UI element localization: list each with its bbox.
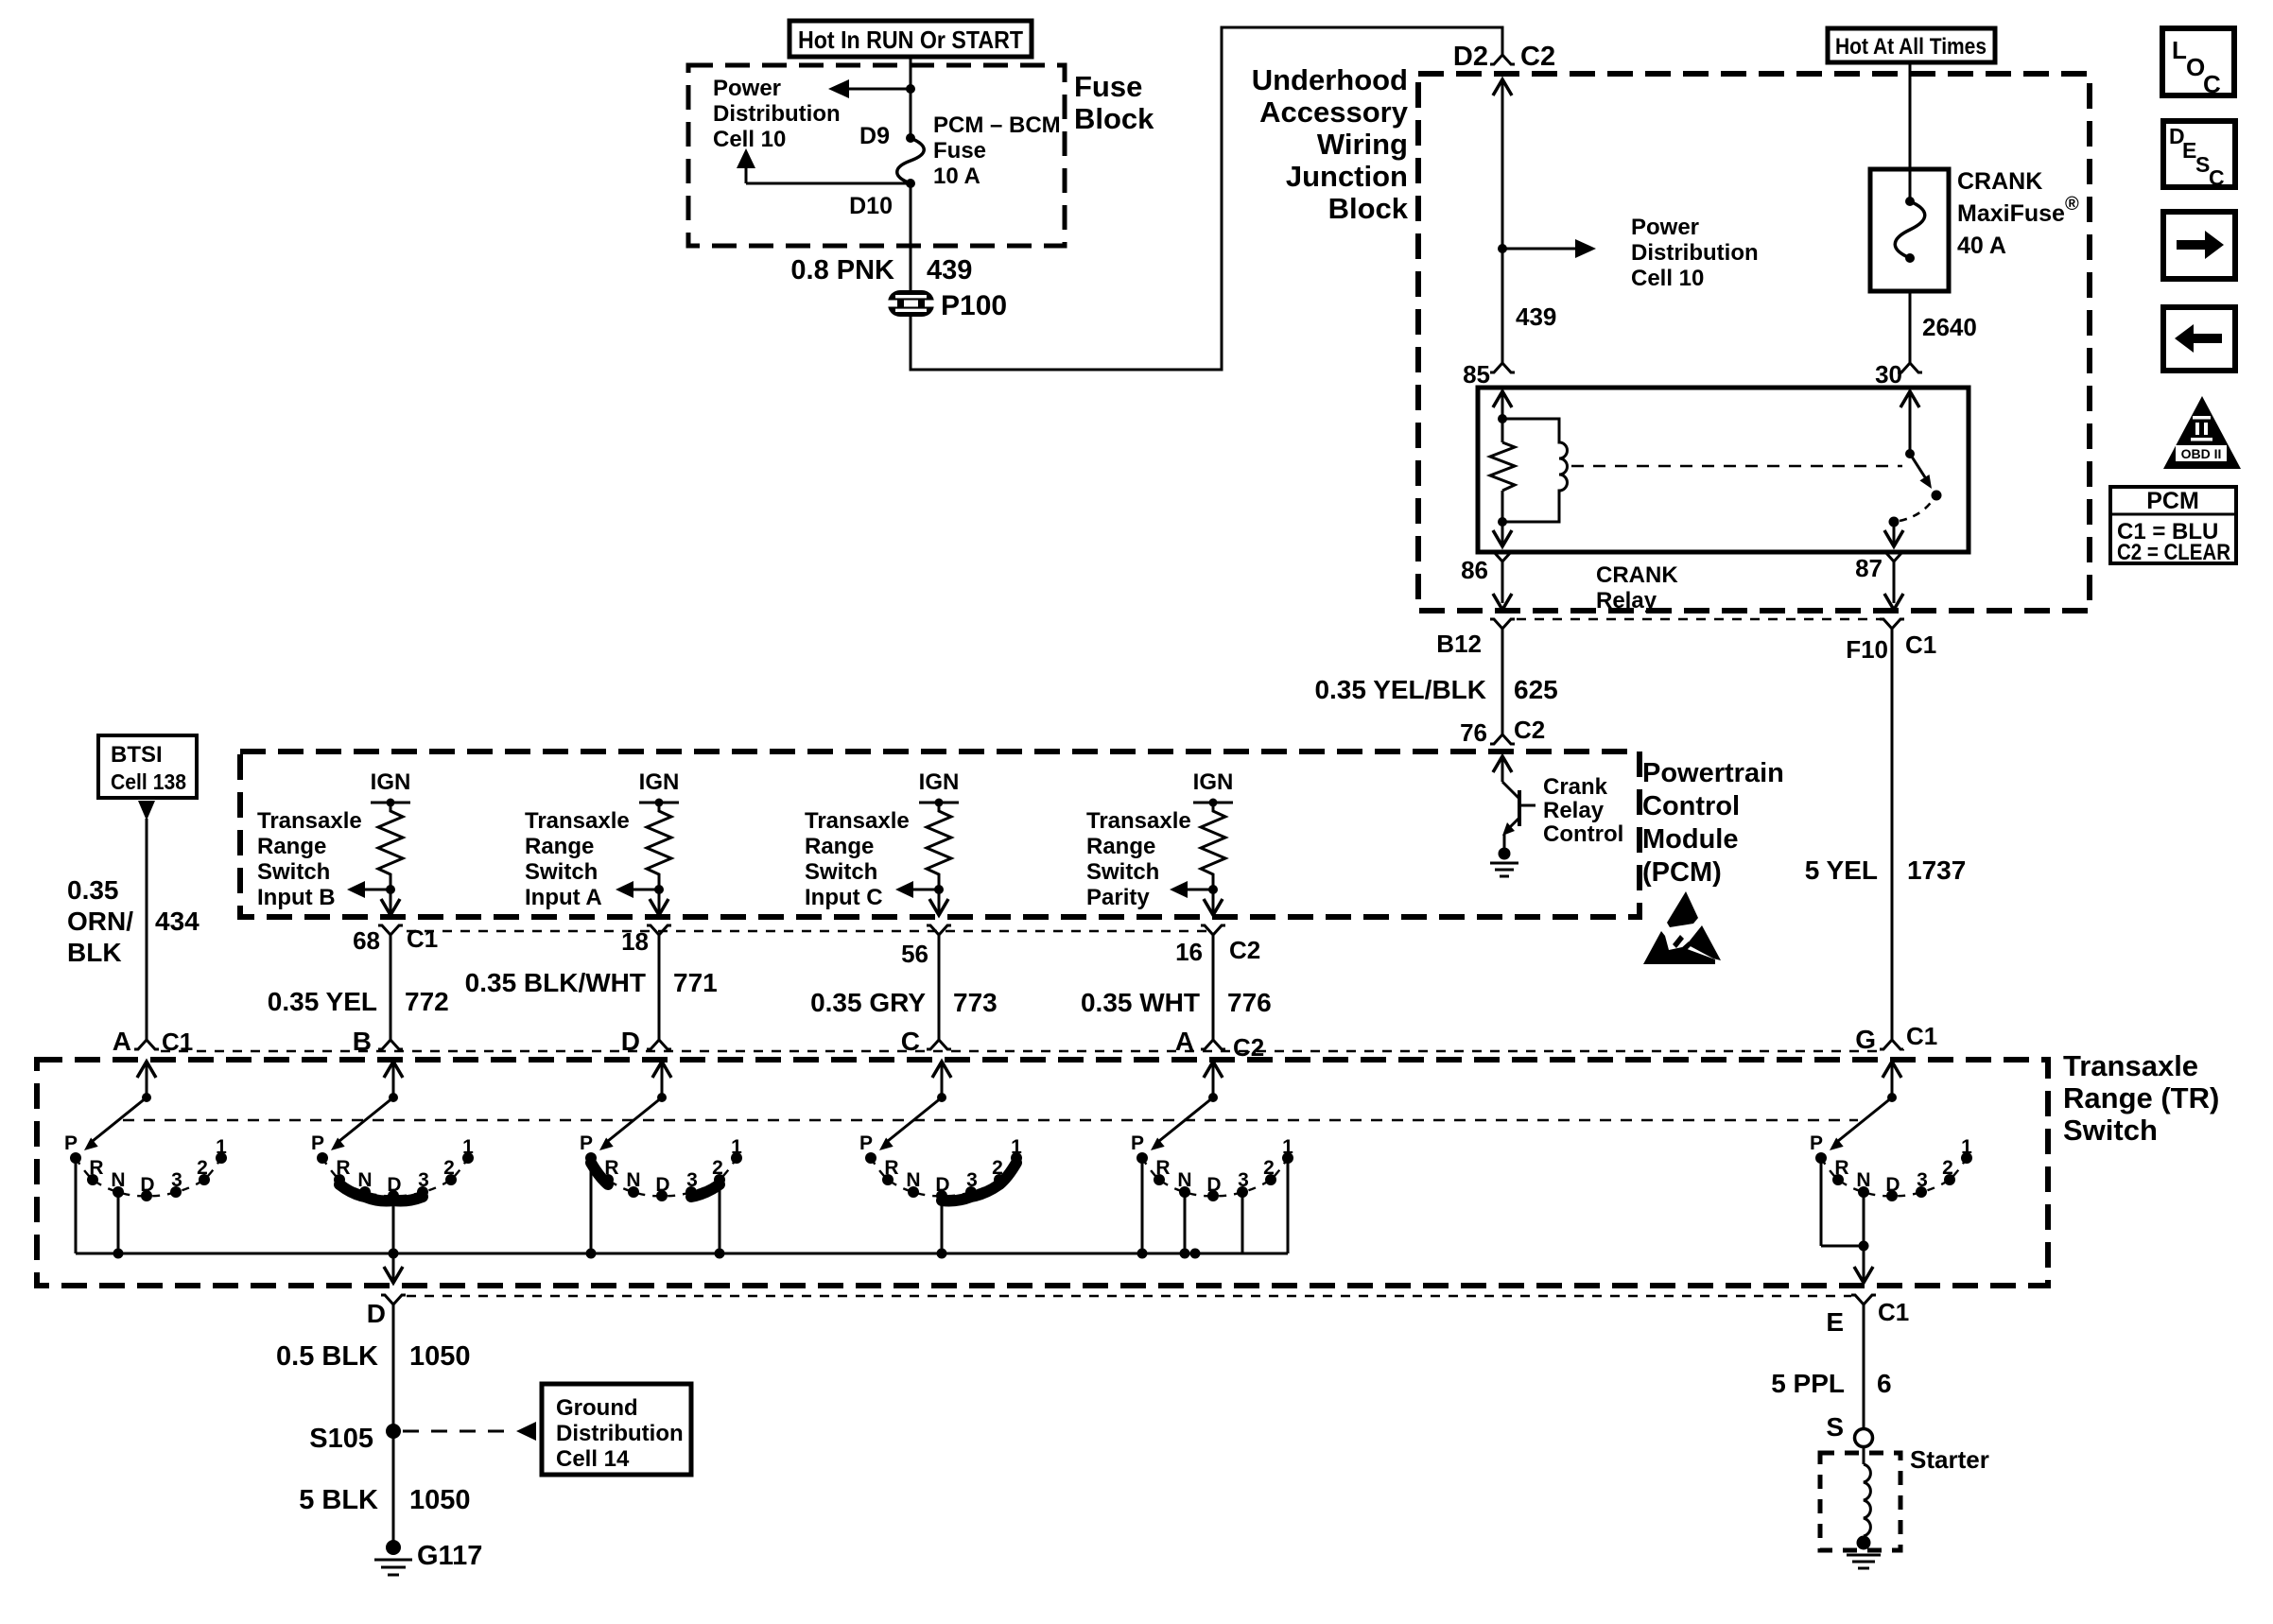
svg-text:0.8 PNK: 0.8 PNK — [790, 255, 894, 285]
svg-text:0.35 WHT: 0.35 WHT — [1081, 988, 1200, 1017]
svg-text:3: 3 — [1917, 1169, 1928, 1191]
TR switch wafer C: bus junction — [937, 1249, 947, 1259]
svg-text:Switch: Switch — [1086, 859, 1159, 885]
TR switch wafer A2: contact wire — [1241, 1192, 1244, 1253]
svg-text:2640: 2640 — [1922, 313, 1977, 341]
label Transaxle Range Switch Parity — [1086, 808, 1191, 910]
PCM IGN pull-up supply for Parity — [1193, 769, 1234, 807]
ground distribution cell 14 label box — [542, 1384, 691, 1475]
node: 439 branch to power distribution — [1498, 244, 1507, 253]
svg-text:A: A — [113, 1027, 131, 1056]
svg-text:C1: C1 — [407, 924, 438, 953]
svg-text:Transaxle: Transaxle — [2063, 1049, 2198, 1082]
svg-text:Power: Power — [1631, 215, 1699, 240]
svg-text:0.35: 0.35 — [67, 875, 119, 905]
ESD sensitive symbol — [1643, 891, 1721, 964]
TR switch wafer D: contact 2 — [712, 1157, 725, 1185]
svg-text:439: 439 — [927, 255, 972, 285]
wire 772 from PCM to TR switch pin B — [268, 935, 449, 1040]
svg-text:N: N — [626, 1169, 640, 1191]
TR switch wafer B: contact 2 — [443, 1157, 457, 1185]
svg-text:3: 3 — [686, 1169, 698, 1191]
node and pin arrow 18 — [650, 885, 668, 915]
PCM crank relay control transistor pin arrow — [1493, 756, 1512, 782]
svg-text:1737: 1737 — [1907, 855, 1966, 885]
TR switch wafer D: bus junction — [586, 1249, 597, 1259]
TR switch wafer A2: contact wire — [1287, 1162, 1290, 1253]
svg-text:Crank: Crank — [1543, 774, 1608, 800]
svg-text:772: 772 — [405, 987, 449, 1016]
sense arrow for Input A — [616, 881, 659, 898]
svg-text:2: 2 — [1942, 1157, 1953, 1179]
TR switch wafer G: pin arrow — [1883, 1062, 1901, 1102]
relay coil pin 85 arrow — [1493, 391, 1512, 419]
svg-text:Transaxle: Transaxle — [525, 808, 630, 834]
pin 68 connector — [353, 924, 440, 955]
label Power Distribution Cell 10 (fuse block) — [713, 76, 841, 152]
svg-text:3: 3 — [171, 1169, 182, 1191]
svg-text:3: 3 — [1238, 1169, 1249, 1191]
svg-text:2: 2 — [712, 1157, 723, 1179]
svg-text:Relay: Relay — [1543, 798, 1605, 823]
svg-text:434: 434 — [155, 907, 200, 936]
TR switch wafer D: contact R — [602, 1157, 619, 1185]
wire 1050 0.5 blk — [276, 1304, 471, 1431]
svg-text:1: 1 — [1282, 1136, 1293, 1158]
junction block pin row dashed line — [1517, 618, 1880, 620]
TR switch wafer B: contact 1 — [462, 1136, 474, 1164]
TR switch wafer A2: contact P — [1131, 1132, 1148, 1164]
hot at all times label box — [1828, 28, 1995, 62]
svg-text:3: 3 — [418, 1169, 429, 1191]
TR switch wafer D: contact 3 — [685, 1169, 698, 1198]
svg-text:D2: D2 — [1453, 42, 1488, 72]
svg-text:D10: D10 — [849, 193, 893, 219]
TR switch wafer G: contact P — [1810, 1132, 1827, 1164]
TR switch wafer B: closed contact strip R-3 — [339, 1184, 423, 1201]
inline connector P100 — [885, 290, 1007, 321]
TR switch wafer G: contact wire — [1820, 1158, 1823, 1246]
PCM IGN pull-up supply for Input C — [919, 769, 960, 807]
pin D (bottom) connector — [367, 1295, 406, 1328]
sense arrow for Parity — [1170, 881, 1213, 898]
TR switch mechanical dashed line — [123, 1119, 1858, 1121]
pin G/C1 connector at TR switch — [1855, 1022, 1939, 1054]
wire arrow to Power Distribution Cell 10 (top) — [828, 79, 911, 98]
TR switch wafer A2: contact R — [1154, 1157, 1171, 1185]
svg-text:1: 1 — [216, 1136, 227, 1158]
TR switch wafer C: pin arrow — [932, 1062, 951, 1102]
TR switch pin D connector — [621, 1027, 671, 1056]
svg-text:C1: C1 — [1878, 1298, 1909, 1326]
svg-text:Distribution: Distribution — [713, 101, 841, 127]
svg-text:C: C — [2209, 165, 2225, 190]
svg-text:86: 86 — [1461, 556, 1488, 584]
label Crank Relay Control — [1543, 774, 1623, 847]
TR switch wafer C: contact 2 — [992, 1157, 1005, 1185]
TR switch wafer B: contact D — [387, 1174, 401, 1201]
TR switch wafer D: closed contact strip 3-2 — [691, 1184, 720, 1197]
svg-text:0.5 BLK: 0.5 BLK — [276, 1341, 378, 1372]
TR switch wafer B: contact R — [334, 1157, 351, 1185]
svg-text:773: 773 — [953, 988, 998, 1017]
svg-text:Accessory: Accessory — [1259, 95, 1409, 129]
svg-text:1050: 1050 — [409, 1341, 471, 1372]
svg-text:Range (TR): Range (TR) — [2063, 1081, 2219, 1114]
svg-text:85: 85 — [1463, 360, 1490, 389]
svg-text:Cell 10: Cell 10 — [1631, 266, 1704, 291]
TR switch wafer D: contact P — [580, 1132, 597, 1164]
svg-text:10 A: 10 A — [933, 164, 980, 189]
relay switch pin 30 arrow — [1900, 391, 1919, 454]
svg-text:1: 1 — [462, 1136, 474, 1158]
svg-text:D: D — [935, 1174, 949, 1196]
TR switch wafer C: contact N — [906, 1169, 920, 1198]
node and pin arrow 56 — [929, 885, 948, 915]
svg-text:PCM: PCM — [2146, 488, 2199, 514]
TR switch wafer G: contact R — [1832, 1157, 1849, 1185]
fuse block dashed box — [688, 65, 1065, 246]
pin D2/C2 connector at junction block — [1453, 42, 1555, 72]
svg-text:N: N — [1856, 1169, 1870, 1191]
junction block title — [1252, 63, 1409, 225]
TR switch wafer A2: contact wire — [1141, 1158, 1144, 1253]
pin 30 connector — [1875, 360, 1922, 389]
svg-text:OBD II: OBD II — [2181, 446, 2222, 461]
TR switch wafer A2: bus junction — [1137, 1249, 1148, 1259]
TR switch wafer A2: contact 2 — [1263, 1157, 1276, 1185]
svg-text:®: ® — [2065, 194, 2079, 215]
relay switch common contact — [1889, 517, 1900, 527]
svg-text:Switch: Switch — [525, 859, 598, 885]
svg-text:IGN: IGN — [1193, 769, 1234, 795]
pin 56 connector — [901, 925, 951, 968]
svg-text:Powertrain: Powertrain — [1642, 758, 1784, 788]
TR switch wafer C: selector blade — [879, 1097, 942, 1150]
TR switch wafer D: contact arc (dashed) — [591, 1158, 737, 1196]
svg-text:Power: Power — [713, 76, 781, 101]
svg-text:Input B: Input B — [257, 885, 336, 910]
svg-text:Block: Block — [1328, 192, 1409, 225]
svg-text:76: 76 — [1460, 718, 1487, 747]
TR switch wafer C: contact D — [935, 1174, 949, 1201]
svg-text:D: D — [367, 1299, 386, 1328]
TR switch wafer G: contact wire — [1863, 1192, 1865, 1246]
pin F10/C1 connector — [1846, 619, 1938, 664]
TR switch title — [2063, 1049, 2219, 1147]
TR switch wafer C: closed contact strip D-1 — [942, 1163, 1016, 1201]
TR switch wafer D: selector blade — [599, 1097, 662, 1150]
svg-text:1050: 1050 — [409, 1485, 471, 1515]
svg-text:L: L — [2172, 36, 2187, 64]
relay mechanical dashed link — [1571, 465, 1902, 468]
TR switch ground output to pin D — [384, 1253, 403, 1283]
svg-text:Control: Control — [1543, 821, 1623, 847]
TR switch wafer A: selector blade — [84, 1097, 147, 1150]
wire 1050 5 blk — [299, 1431, 470, 1543]
fuse terminal D9 — [859, 123, 915, 149]
wire 773 from PCM to TR switch pin C — [810, 935, 998, 1040]
svg-text:N: N — [111, 1169, 125, 1191]
svg-text:5 YEL: 5 YEL — [1805, 855, 1878, 885]
TR switch wafer G: bus junction — [1859, 1241, 1869, 1252]
resistor TR switch Input B pull-up — [378, 803, 403, 890]
TR switch wafer A2: contact D — [1206, 1174, 1221, 1201]
svg-text:Wiring: Wiring — [1317, 128, 1408, 161]
starter dashed box — [1820, 1453, 1900, 1550]
svg-text:439: 439 — [1516, 302, 1556, 331]
svg-text:Fuse: Fuse — [1074, 70, 1142, 103]
dashed reference to ground distribution — [403, 1422, 536, 1441]
TR switch pin row dashed line (top) — [161, 1050, 1885, 1052]
TR switch wafer B: contact wire — [392, 1198, 395, 1253]
TR switch wafer A2: contact wire — [1184, 1192, 1187, 1253]
TR switch wafer D: contact D — [655, 1174, 669, 1201]
starter solenoid coil — [1864, 1446, 1870, 1536]
svg-text:0.35 BLK/WHT: 0.35 BLK/WHT — [465, 968, 646, 997]
svg-text:3: 3 — [966, 1169, 978, 1191]
svg-text:16: 16 — [1175, 938, 1203, 966]
TR switch wafer A: contact 2 — [197, 1157, 210, 1185]
TR switch G wafer common link — [1821, 1246, 1873, 1283]
label Transaxle Range Switch Input C — [805, 808, 910, 910]
wire from Hot At All Times to maxifuse — [1909, 62, 1912, 201]
TR switch wafer G: contact 3 — [1916, 1169, 1928, 1198]
wire label 0.8 PNK 439 — [790, 255, 972, 285]
pin arrow into junction block at D2 — [1493, 79, 1512, 249]
svg-text:Range: Range — [257, 834, 326, 859]
TR switch wafer A2: contact 3 — [1237, 1169, 1249, 1198]
label Starter — [1910, 1445, 1989, 1474]
svg-text:Relay: Relay — [1596, 588, 1657, 613]
svg-text:MaxiFuse: MaxiFuse — [1957, 200, 2065, 227]
TR switch wafer C: contact R — [882, 1157, 899, 1185]
relay coil parallel resistor — [1490, 414, 1515, 527]
TR switch wafer A: contact 3 — [170, 1169, 182, 1198]
TR switch wafer C: contact arc (dashed) — [871, 1158, 1016, 1196]
svg-text:R: R — [1155, 1157, 1170, 1179]
label Transaxle Range Switch Input A — [525, 808, 630, 910]
TR switch wafer A2: bus junction — [1180, 1249, 1190, 1259]
svg-text:IGN: IGN — [371, 769, 411, 795]
pin 87 connector and wire to F10 — [1855, 552, 1906, 610]
svg-text:1: 1 — [1961, 1136, 1972, 1158]
svg-text:Range: Range — [525, 834, 594, 859]
TR switch wafer B: contact 3 — [417, 1169, 429, 1198]
arrow to Power Distribution Cell 10 (junction block) — [1502, 239, 1596, 258]
svg-text:0.35 YEL/BLK: 0.35 YEL/BLK — [1314, 675, 1486, 704]
transistor emitter ground — [1490, 848, 1518, 877]
wire 439 from P100 to junction block D2 — [911, 27, 1502, 370]
svg-text:Input C: Input C — [805, 885, 883, 910]
TR switch wafer A: contact N — [111, 1169, 125, 1198]
TR switch wafer A2: bus junction — [1190, 1249, 1201, 1259]
TR switch wafer A: contact wire — [75, 1158, 78, 1253]
fuse F9 PCM-BCM 10A element — [897, 138, 925, 183]
nav icon LOC — [2162, 28, 2234, 98]
fuse block title — [1074, 70, 1154, 135]
svg-text:Parity: Parity — [1086, 885, 1150, 910]
TR switch pin A connector — [1175, 1027, 1266, 1062]
svg-text:P: P — [1131, 1132, 1144, 1154]
pin 76/C2 connector at PCM — [1460, 716, 1545, 747]
label PCM-BCM Fuse 10 A — [933, 112, 1061, 189]
TR switch wafer A: contact 1 — [216, 1136, 227, 1164]
label Power Distribution Cell 10 (junction block) — [1631, 215, 1759, 291]
TR switch wafer G: selector blade — [1830, 1097, 1892, 1150]
wire 434 orn/blk from BTSI — [67, 819, 200, 1040]
svg-text:6: 6 — [1877, 1369, 1892, 1398]
starter S terminal — [1826, 1412, 1872, 1447]
sense arrow for Input C — [895, 881, 939, 898]
label CRANK MaxiFuse 40 A — [1957, 168, 2079, 259]
svg-text:Transaxle: Transaxle — [257, 808, 362, 834]
TR switch wafer G: contact D — [1885, 1174, 1900, 1201]
resistor TR switch Parity pull-up — [1201, 803, 1225, 890]
TR switch wafer A: contact P — [64, 1132, 81, 1164]
wire from Hot In RUN to fuse D9 — [910, 57, 912, 138]
svg-text:C: C — [2203, 70, 2221, 98]
PCM IGN pull-up supply for Input A — [639, 769, 680, 807]
svg-text:Underhood: Underhood — [1252, 63, 1408, 96]
TR switch wafer B: contact N — [357, 1169, 372, 1198]
sense arrow for Input B — [347, 881, 390, 898]
svg-text:Junction: Junction — [1286, 160, 1408, 193]
splice S105 — [309, 1424, 401, 1454]
pin 16 connector — [1175, 925, 1262, 966]
wire 1737 yellow F10 to G — [1805, 629, 1967, 1040]
wire arrow to Power Distribution Cell 10 (bottom) — [737, 148, 911, 183]
svg-text:P: P — [580, 1132, 593, 1154]
TR switch wafer A2: contact arc (dashed) — [1142, 1158, 1288, 1196]
fuse terminal D10 — [849, 179, 915, 219]
svg-text:E: E — [1826, 1307, 1844, 1337]
svg-text:N: N — [357, 1169, 372, 1191]
svg-text:D: D — [1206, 1174, 1221, 1196]
junction block dashed box — [1418, 74, 2090, 611]
svg-text:B12: B12 — [1436, 630, 1482, 658]
wire 771 from PCM to TR switch pin D — [465, 935, 718, 1040]
svg-text:0.35 GRY: 0.35 GRY — [810, 988, 926, 1017]
TR switch wafer B: selector blade — [331, 1097, 393, 1150]
svg-text:30: 30 — [1875, 360, 1902, 389]
svg-text:P: P — [64, 1132, 78, 1154]
TR switch wafer D: contact wire — [719, 1182, 721, 1253]
transistor Q crank relay control — [1502, 782, 1536, 849]
svg-text:2: 2 — [443, 1157, 455, 1179]
svg-text:C2 = CLEAR: C2 = CLEAR — [2117, 540, 2230, 565]
svg-text:Switch: Switch — [2063, 1114, 2158, 1147]
svg-text:P100: P100 — [941, 290, 1007, 321]
svg-text:Range: Range — [1086, 834, 1155, 859]
wire 2640 to relay pin 30 — [1910, 291, 1977, 363]
PCM pin row dashed line — [407, 930, 1213, 932]
svg-text:Transaxle: Transaxle — [1086, 808, 1191, 834]
svg-text:R: R — [604, 1157, 618, 1179]
svg-text:Transaxle: Transaxle — [805, 808, 910, 834]
svg-text:BLK: BLK — [67, 938, 122, 967]
ground G117 — [374, 1540, 482, 1575]
svg-text:C2: C2 — [1520, 42, 1555, 72]
svg-text:R: R — [89, 1157, 103, 1179]
svg-text:625: 625 — [1514, 675, 1558, 704]
svg-text:G: G — [1855, 1025, 1876, 1054]
wire 625 yel/blk — [1314, 629, 1557, 734]
resistor TR switch Input A pull-up — [647, 803, 671, 890]
TR switch wafer B: contact arc (dashed) — [322, 1158, 468, 1196]
svg-text:Fuse: Fuse — [933, 138, 986, 164]
svg-text:G117: G117 — [417, 1541, 482, 1571]
svg-text:C1: C1 — [1905, 631, 1936, 659]
TR switch wafer A: contact D — [140, 1174, 154, 1201]
pin 18 connector — [621, 925, 671, 956]
svg-text:PCM – BCM: PCM – BCM — [933, 112, 1061, 138]
TR switch wafer C: contact wire — [941, 1196, 944, 1253]
svg-text:Switch: Switch — [805, 859, 877, 885]
TR switch wafer A2: pin arrow — [1204, 1062, 1223, 1102]
svg-text:Cell 138: Cell 138 — [111, 769, 186, 794]
svg-text:N: N — [1177, 1169, 1191, 1191]
svg-text:2: 2 — [197, 1157, 208, 1179]
svg-text:S105: S105 — [309, 1424, 373, 1454]
svg-text:C2: C2 — [1229, 936, 1260, 964]
TR switch bottom pin row dashed line — [407, 1295, 1851, 1297]
TR switch wafer G: contact 2 — [1942, 1157, 1955, 1185]
svg-text:Hot In RUN Or START: Hot In RUN Or START — [798, 26, 1023, 54]
svg-text:N: N — [906, 1169, 920, 1191]
TR switch wafer A2: selector blade — [1151, 1097, 1213, 1150]
svg-text:P: P — [311, 1132, 324, 1154]
TR switch wafer B: bus junction — [389, 1249, 399, 1259]
TR switch wafer G: contact 1 — [1961, 1136, 1972, 1164]
TR switch wafer D: closed contact strip P-R — [591, 1163, 608, 1184]
svg-text:Ground: Ground — [556, 1395, 638, 1421]
svg-text:Cell 10: Cell 10 — [713, 127, 786, 152]
svg-text:Range: Range — [805, 834, 874, 859]
TR switch wafer A: bus junction — [113, 1249, 124, 1259]
nav icon right arrow — [2163, 212, 2235, 279]
node: branch to power distribution cell 10 (top) — [906, 84, 915, 94]
pin 85 connector — [1463, 360, 1515, 389]
wire 439 pnk from D10 down — [910, 183, 912, 291]
transaxle range switch dashed box — [37, 1060, 2048, 1286]
svg-text:R: R — [336, 1157, 350, 1179]
svg-text:Distribution: Distribution — [556, 1421, 684, 1446]
PCM dashed box — [240, 752, 1640, 917]
OBD II symbol — [2163, 396, 2241, 469]
svg-text:Cell 14: Cell 14 — [556, 1446, 630, 1472]
svg-text:68: 68 — [353, 926, 380, 955]
TR switch wafer B: contact P — [311, 1132, 328, 1164]
TR switch wafer A: contact wire — [117, 1192, 120, 1253]
TR switch wafer D: bus junction — [715, 1249, 725, 1259]
BTSI Cell 138 label box — [98, 735, 197, 798]
svg-text:Control: Control — [1642, 791, 1740, 821]
svg-text:R: R — [1834, 1157, 1848, 1179]
svg-text:Switch: Switch — [257, 859, 330, 885]
label Transaxle Range Switch Input B — [257, 808, 362, 910]
svg-text:87: 87 — [1855, 554, 1883, 582]
TR switch wafer D: pin arrow — [652, 1062, 671, 1102]
svg-text:Block: Block — [1074, 102, 1154, 135]
TR switch wafer D: contact N — [626, 1169, 640, 1198]
svg-text:56: 56 — [901, 940, 928, 968]
svg-text:P: P — [859, 1132, 873, 1154]
relay coil winding — [1502, 419, 1568, 522]
relay switch contact 87a — [1932, 491, 1942, 501]
svg-text:IGN: IGN — [919, 769, 960, 795]
svg-text:S: S — [1826, 1412, 1844, 1442]
